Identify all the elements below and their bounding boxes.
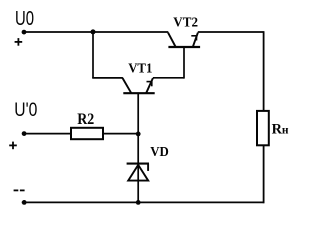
wire VT1 base vertical — [137, 93, 139, 134]
zener diode VD cathode bar — [127, 163, 149, 165]
transistor VT2 emitter lead — [193, 33, 198, 47]
wire top rail right (VT2 emitter to load) — [198, 31, 264, 33]
junction node B (base / R2 / VD) — [136, 132, 141, 137]
resistor R2 body — [71, 128, 103, 139]
wire left vertical drop to VT1 collector — [92, 32, 94, 78]
zener diode VD cathode tick — [147, 164, 149, 171]
junction node A (top rail to VT1 branch) — [91, 29, 96, 34]
zener diode VD triangle — [128, 165, 148, 181]
minus polarity mark (two dashes) — [14, 190, 25, 192]
transistor VT1 emitter lead — [146, 78, 153, 93]
terminal dot minus — [22, 200, 27, 205]
wire VT2 base vertical — [183, 47, 185, 79]
plus polarity mark (upper) — [15, 38, 23, 46]
wire U'0 to R2 — [24, 133, 71, 135]
wire VT1 emitter to VT2 base — [153, 77, 184, 79]
svg-text:VT2: VT2 — [173, 16, 198, 31]
svg-text:Rн: Rн — [272, 121, 289, 137]
transistor VT2 base bar — [168, 46, 200, 48]
transistor VT2 collector lead — [168, 33, 176, 47]
wire VT1 collector horizontal — [92, 77, 123, 79]
wire top rail left (U0+ to VT2 collector) — [24, 31, 168, 33]
plus polarity mark (lower) — [9, 142, 17, 150]
transistor VT2 emitter arrow — [191, 35, 197, 40]
wire VD branch vertical — [137, 134, 139, 203]
svg-text:VT1: VT1 — [128, 60, 152, 75]
transistor VT1 collector lead — [123, 78, 132, 93]
svg-text:U0: U0 — [15, 7, 34, 30]
svg-text:R2: R2 — [77, 111, 94, 128]
transistor VT1 base bar — [123, 92, 154, 94]
wire right vertical upper (to RH) — [263, 31, 265, 111]
terminal dot U'0+ — [22, 131, 27, 136]
wire right vertical lower (RH to bottom rail) — [263, 145, 265, 203]
svg-text:VD: VD — [150, 145, 169, 160]
terminal dot U0+ — [22, 30, 27, 35]
wire bottom rail — [22, 201, 265, 203]
svg-text:U'0: U'0 — [14, 100, 37, 121]
resistor RH body — [257, 111, 269, 145]
wire R2 to base node — [103, 133, 138, 135]
transistor VT1 emitter arrow — [147, 81, 153, 86]
junction dot VD to bottom rail — [136, 200, 141, 205]
